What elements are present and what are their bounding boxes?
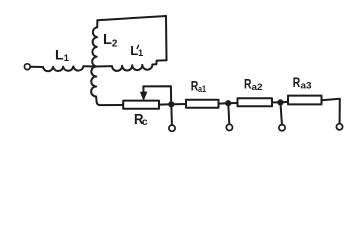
svg-text:L1: L1 (130, 43, 143, 58)
svg-text:a2: a2 (252, 82, 263, 93)
svg-text:a1: a1 (198, 84, 207, 95)
wire dot1 down to terminal (170, 107, 173, 124)
wire box right side (165, 16, 168, 60)
output terminal O4 (336, 124, 342, 130)
svg-text:R: R (293, 74, 301, 90)
wire L1 to node A (84, 65, 97, 67)
svg-text:a3: a3 (301, 81, 312, 92)
svg-text:c: c (142, 116, 148, 128)
wire box top side (97, 16, 166, 20)
resistor Ra2 (238, 98, 273, 106)
wire Rc to node dot1 (159, 103, 171, 105)
rheostat wiper arrowhead (141, 92, 147, 100)
wire wiper tap top run (143, 86, 171, 104)
node dot 2 (225, 100, 231, 106)
inductor L'1 (112, 65, 152, 71)
node dot 1 (169, 102, 175, 108)
wire box top-left corner stub (96, 20, 98, 27)
rheostat wiper arrow stem (142, 86, 144, 93)
wire L'1 to node A (97, 65, 113, 67)
wire dot2 down to terminal (227, 106, 230, 124)
wire dot2 to Ra2 (231, 102, 238, 104)
wire dot3 down to terminal (281, 105, 282, 124)
input terminal T1 (24, 64, 30, 70)
wire T1 to L1 (30, 66, 43, 68)
wire Ra2 to dot3 (272, 101, 280, 103)
wire Ra1 to dot2 (219, 102, 229, 104)
output terminal O2 (226, 124, 232, 130)
wire box bottom-right connector (152, 60, 166, 64)
svg-text:L2: L2 (103, 32, 118, 49)
wire coil bottom to corner (96, 97, 123, 106)
wire dot3 to Ra3 (283, 101, 288, 104)
inductor lower section of tapped coil (below tap A) (91, 66, 96, 96)
wire dot1 to Ra1 (174, 103, 186, 105)
inductor L1 (43, 66, 83, 71)
resistor Ra3 (288, 96, 322, 105)
resistor Ra1 (186, 100, 219, 108)
output terminal O3 (279, 125, 285, 131)
rheostat Rc body (123, 101, 159, 109)
inductor L2 (upper section of tapped coil) (92, 27, 97, 66)
label L'1 prime mark (137, 45, 138, 48)
wire Ra3 to right corner (322, 99, 340, 124)
svg-text:R: R (244, 75, 252, 91)
output terminal O1 (169, 125, 175, 131)
svg-text:L1: L1 (55, 47, 70, 64)
node dot 3 (278, 100, 284, 106)
